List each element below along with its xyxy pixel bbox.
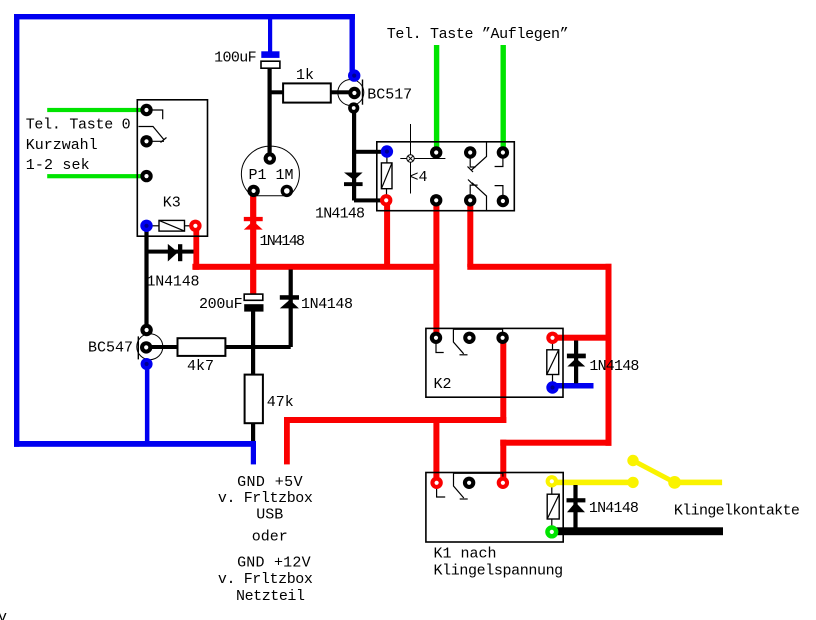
svg-text:oder: oder [252,529,288,546]
svg-text:1N4148: 1N4148 [301,296,353,313]
svg-text:P1 1M: P1 1M [249,167,294,184]
svg-text:47k: 47k [267,394,294,411]
svg-text:K1 nach: K1 nach [434,546,497,563]
wire blue BC547 emitter to GND bus [145,364,150,445]
wire black 200uF down through junction to 47k [251,311,255,374]
wire green Taste0 lower [47,174,146,178]
svg-text:v: v [0,609,7,620]
wire red K4 pin to K2 pin1 vertical [433,201,439,338]
potentiometer P1 [241,146,299,197]
relay K4 body [377,142,515,211]
capacitor C2 200uF [244,294,263,312]
wire black junction to 1k [268,90,284,94]
svg-text:v. Frltzbox: v. Frltzbox [218,571,313,588]
wire green Auflegen left [434,45,439,153]
svg-text:1N4148: 1N4148 [589,500,639,517]
wire blue K2 coil stub [552,383,594,389]
wire black diode vertical from red bus [289,270,293,348]
wire red K2 coil pin horizontal [552,335,611,341]
svg-text:4k7: 4k7 [187,358,214,375]
wire red bus B right vertical [606,264,612,446]
wire red +5V terminal drop [284,417,290,464]
relay K2 pins [430,332,559,394]
relay K4 pins [380,145,509,207]
wire black thick K1 green pin to Klingelkontakte [552,527,723,535]
diode D2 1N4148 red (under P1) [244,217,263,230]
wire red +5V horizontal [284,417,506,423]
wire red K3 coil pin drop [193,226,199,270]
wire blue supply left border [14,14,19,447]
relay K2 body [426,328,563,397]
svg-text:GND +12V: GND +12V [237,555,311,572]
wire black 1k to BC517 base [331,90,354,94]
wire black to K4 red coil pin [354,198,387,202]
svg-text:Klingelspannung: Klingelspannung [434,562,564,579]
wire red P1 wiper through diode to 200uF [250,191,256,295]
wire black to K4 blue coil pin [354,150,387,154]
resistor R3 47k [245,375,263,424]
diode D4 1N4148 black (near 200uF) [280,295,299,308]
svg-text:v. Frltzbox: v. Frltzbox [218,490,313,507]
wire red K2 pin3 drop [500,338,506,423]
capacitor C1 100uF [261,51,280,68]
svg-text:Tel. Taste 0: Tel. Taste 0 [26,117,131,134]
relay K4 contact symbols [468,142,503,211]
svg-text:1N4148: 1N4148 [260,233,306,250]
switch S1 Klingelkontakte blade [627,455,681,489]
diode D1 1N4148 black (K3 horizontal) [168,244,183,262]
svg-text:BC517: BC517 [367,87,412,104]
wire red K4 coil pin drop [384,200,390,267]
wire black 100uF to P1 [268,68,272,159]
relay K1 pins [430,475,558,538]
svg-text:Kurzwahl: Kurzwahl [26,137,98,154]
relay K1 body [426,473,563,543]
svg-text:<4: <4 [410,169,428,186]
diode D6 1N4148 black (across K1 coil) [567,485,586,531]
svg-text:1-2 sek: 1-2 sek [26,157,90,174]
wire red drop to K1 pin3 [500,440,506,483]
wire yellow K1 coil to contact [552,480,633,486]
wire black 4k7 to diode junction [225,345,290,349]
svg-text:GND +5V: GND +5V [237,474,303,491]
wire black K3 blue pin to BC547 collector [144,226,148,330]
diode D3 1N4148 black (across K4 coil) [344,173,363,187]
svg-text:Klingelkontakte: Klingelkontakte [674,502,800,519]
svg-text:1N4148: 1N4148 [589,358,639,375]
wire black K3 diode branch [147,250,194,254]
wire red drop to K1 pin1 [433,417,439,483]
svg-text:1N4148: 1N4148 [315,206,365,223]
transistor Q2 BC547 [137,324,163,370]
svg-text:K2: K2 [434,376,452,393]
svg-text:USB: USB [256,507,283,524]
wire green Auflegen right [501,45,506,153]
relay K4 crosshair node [400,124,445,194]
wire blue GND terminal drop [251,441,256,464]
svg-text:Netzteil: Netzteil [236,588,305,605]
svg-text:200uF: 200uF [199,296,243,313]
relay K2 contact symbol [436,329,503,355]
resistor R2 4k7 [178,338,226,356]
relay K3 contact symbol [139,110,167,143]
wire blue drop to 100uF [268,19,272,52]
wire black BC517 emitter chain vertical [352,108,356,201]
relay K3 pins [140,104,201,232]
relay K1 contact symbol [437,473,503,499]
resistor R1 1k [283,83,331,102]
svg-text:100uF: 100uF [214,50,257,67]
wire blue supply top border [14,14,355,19]
relay K3 body [137,100,207,236]
svg-text:BC547: BC547 [88,340,133,357]
svg-text:1k: 1k [296,67,314,84]
wire red bus B vertical from K4 pin [467,201,473,267]
wire green Taste0 upper [47,108,146,112]
svg-text:1N4148: 1N4148 [147,274,200,291]
wire yellow contact to Klingelkontakte [675,480,723,486]
wire blue drop to BC517 collector [350,19,355,76]
wire red bus B lower horizontal [500,440,611,446]
diode D5 1N4148 black (across K2 coil) [567,341,586,384]
wire red bus A horizontal [192,264,439,270]
transistor Q1 BC517 [338,69,364,113]
svg-text:K3: K3 [163,195,181,212]
wire black BC547 base to 4k7 [146,345,178,349]
wire red bus B horizontal [467,264,611,270]
svg-text:Tel. Taste ”Auflegen”: Tel. Taste ”Auflegen” [387,26,569,43]
wire blue bottom GND bus [14,441,253,447]
wire black 47k to GND bus [251,423,255,441]
